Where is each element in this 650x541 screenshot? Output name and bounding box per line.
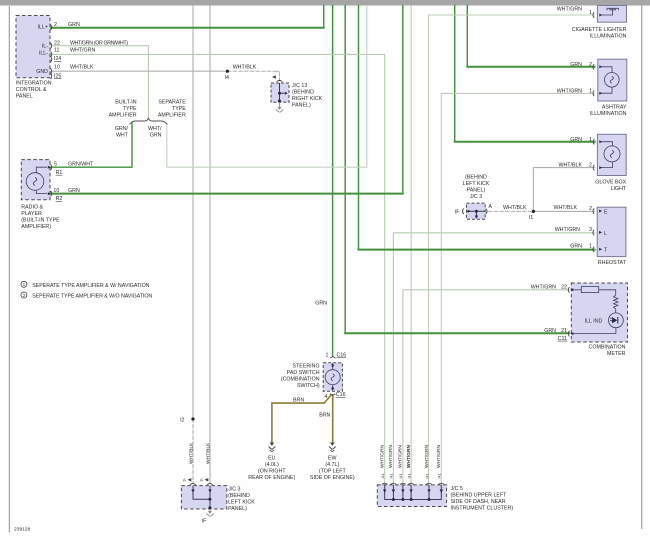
svg-text:INSTRUMENT CLUSTER): INSTRUMENT CLUSTER) — [451, 506, 514, 512]
svg-text:I41: I41 — [381, 474, 385, 479]
svg-text:(BEHIND: (BEHIND — [465, 175, 487, 181]
svg-text:METER: METER — [607, 351, 626, 357]
svg-text:5: 5 — [54, 162, 57, 168]
svg-text:WHT/BLK: WHT/BLK — [189, 442, 195, 464]
svg-text:(COMBINATION: (COMBINATION — [281, 376, 320, 382]
svg-text:REAR OF ENGINE): REAR OF ENGINE) — [248, 475, 295, 481]
svg-text:2: 2 — [589, 206, 592, 212]
svg-text:GRN: GRN — [570, 62, 582, 68]
svg-text:WHT/GRN: WHT/GRN — [70, 47, 95, 53]
svg-text:C16: C16 — [336, 392, 346, 398]
svg-text:WHT/BLK: WHT/BLK — [206, 442, 212, 464]
svg-text:ILL+: ILL+ — [38, 25, 48, 31]
svg-text:11: 11 — [54, 47, 60, 53]
svg-text:ILLUMINATION: ILLUMINATION — [590, 34, 627, 40]
svg-text:A: A — [489, 204, 493, 210]
svg-text:TYPE: TYPE — [172, 106, 186, 112]
svg-text:WHT/BLK: WHT/BLK — [70, 64, 94, 70]
svg-text:(ON RIGHT: (ON RIGHT — [258, 468, 286, 474]
svg-text:PANEL): PANEL) — [228, 506, 247, 512]
svg-text:GND: GND — [36, 69, 48, 75]
svg-text:I41: I41 — [390, 474, 394, 479]
svg-text:GRN: GRN — [68, 188, 80, 194]
svg-text:I4: I4 — [225, 75, 229, 81]
svg-text:SIDE OF ENGINE): SIDE OF ENGINE) — [310, 475, 355, 481]
svg-text:WHT/GRN: WHT/GRN — [388, 445, 394, 468]
svg-text:WHT/GRN: WHT/GRN — [424, 445, 430, 468]
svg-text:1: 1 — [589, 88, 592, 94]
svg-text:EW: EW — [328, 455, 337, 461]
svg-text:ASHTRAY: ASHTRAY — [602, 105, 627, 111]
svg-text:J/C 5: J/C 5 — [451, 486, 463, 492]
svg-text:(4.0L): (4.0L) — [265, 462, 279, 468]
svg-text:2: 2 — [589, 163, 592, 169]
svg-text:I41: I41 — [425, 474, 429, 479]
svg-text:21: 21 — [561, 328, 567, 334]
svg-text:COMBINATION: COMBINATION — [589, 345, 626, 351]
svg-text:RHEOSTAT: RHEOSTAT — [598, 260, 627, 266]
svg-text:22: 22 — [54, 40, 60, 46]
svg-text:10: 10 — [54, 64, 60, 70]
svg-text:GRN: GRN — [150, 133, 162, 139]
svg-text:PANEL): PANEL) — [292, 103, 311, 109]
svg-text:LEFT KICK: LEFT KICK — [228, 499, 255, 505]
svg-text:3: 3 — [589, 227, 592, 233]
svg-text:1: 1 — [589, 137, 592, 143]
svg-text:4: 4 — [324, 394, 327, 400]
svg-text:239128: 239128 — [14, 527, 31, 533]
svg-text:RIGHT KICK: RIGHT KICK — [292, 96, 323, 102]
svg-text:WHT/: WHT/ — [148, 126, 162, 132]
svg-text:I41: I41 — [438, 474, 442, 479]
svg-text:ILL IND: ILL IND — [585, 318, 603, 324]
svg-text:J/C 13: J/C 13 — [292, 83, 307, 89]
svg-text:WHT/BLK: WHT/BLK — [553, 205, 577, 211]
svg-text:WHT/GRN: WHT/GRN — [380, 445, 386, 468]
svg-text:SEPARATE: SEPARATE — [158, 99, 186, 105]
svg-text:WHT/GRN: WHT/GRN — [557, 7, 582, 13]
svg-text:RADIO &: RADIO & — [21, 205, 43, 211]
svg-text:PAD SWITCH: PAD SWITCH — [287, 370, 320, 376]
svg-text:WHT/GRN (OR GRN/WHT): WHT/GRN (OR GRN/WHT) — [70, 40, 128, 46]
svg-text:J/C 3: J/C 3 — [470, 194, 482, 200]
svg-text:I24: I24 — [54, 56, 61, 62]
svg-text:(BUILT-IN TYPE: (BUILT-IN TYPE — [21, 218, 60, 224]
svg-text:SIDE OF DASH, NEAR: SIDE OF DASH, NEAR — [451, 499, 506, 505]
svg-text:I41: I41 — [399, 474, 403, 479]
svg-text:GRN: GRN — [570, 137, 582, 143]
svg-text:AMPLIFIER: AMPLIFIER — [109, 112, 137, 118]
svg-text:10: 10 — [53, 188, 59, 194]
svg-text:1: 1 — [589, 10, 592, 16]
svg-text:WHT/GRN: WHT/GRN — [531, 284, 556, 290]
svg-text:PANEL): PANEL) — [467, 188, 486, 194]
svg-text:22: 22 — [561, 284, 567, 290]
svg-text:INTEGRATION: INTEGRATION — [16, 80, 52, 86]
svg-text:GRN: GRN — [570, 244, 582, 250]
svg-text:1: 1 — [326, 352, 329, 358]
svg-text:2: 2 — [589, 62, 592, 68]
svg-text:STEERING: STEERING — [293, 363, 320, 369]
svg-text:(TOP LEFT: (TOP LEFT — [319, 468, 347, 474]
svg-text:CIGARETTE LIGHTER: CIGARETTE LIGHTER — [572, 27, 627, 33]
svg-text:PANEL: PANEL — [16, 93, 33, 99]
svg-text:2: 2 — [54, 22, 57, 28]
svg-text:GRN: GRN — [315, 301, 327, 307]
svg-text:WHT/GRN: WHT/GRN — [555, 227, 580, 233]
svg-text:E: E — [604, 209, 608, 215]
svg-text:AMPLIFIER): AMPLIFIER) — [21, 224, 51, 230]
svg-text:BRN: BRN — [319, 413, 330, 419]
svg-text:(BEHIND UPPER LEFT: (BEHIND UPPER LEFT — [451, 493, 508, 499]
svg-text:J/C 3: J/C 3 — [228, 486, 240, 492]
svg-text:LEFT KICK: LEFT KICK — [463, 181, 490, 187]
svg-text:ILLUMINATION: ILLUMINATION — [590, 111, 627, 117]
svg-text:IF: IF — [455, 209, 460, 215]
svg-text:EU: EU — [268, 455, 276, 461]
svg-text:I41: I41 — [407, 474, 411, 479]
svg-text:TYPE: TYPE — [123, 106, 137, 112]
svg-text:C11: C11 — [558, 336, 567, 342]
svg-text:ILL-: ILL- — [39, 51, 48, 57]
svg-text:GRN: GRN — [544, 328, 556, 334]
svg-text:GRN/: GRN/ — [115, 126, 129, 132]
svg-text:CONTROL &: CONTROL & — [16, 87, 47, 93]
svg-text:WHT/BLK: WHT/BLK — [558, 163, 582, 169]
svg-text:WHT: WHT — [116, 133, 129, 139]
svg-text:WHT/GRN: WHT/GRN — [557, 88, 582, 94]
svg-text:WHT/GRN: WHT/GRN — [398, 445, 404, 468]
svg-text:BUILT-IN: BUILT-IN — [115, 99, 137, 105]
svg-text:IF: IF — [202, 519, 207, 525]
svg-text:SEPERATE TYPE AMPLIFIER & W/O: SEPERATE TYPE AMPLIFIER & W/O NAVIGATION — [32, 294, 152, 300]
svg-text:PLAYER: PLAYER — [21, 211, 42, 217]
svg-text:WHT/GRN: WHT/GRN — [436, 445, 442, 468]
svg-text:BRN: BRN — [293, 397, 304, 403]
svg-text:C16: C16 — [337, 352, 347, 358]
svg-text:1: 1 — [589, 244, 592, 250]
svg-text:I25: I25 — [54, 73, 61, 79]
svg-text:SEPERATE TYPE AMPLIFIER & W/ N: SEPERATE TYPE AMPLIFIER & W/ NAVIGATION — [32, 283, 149, 289]
svg-text:GLOVE BOX: GLOVE BOX — [595, 180, 626, 186]
svg-text:(BEHIND: (BEHIND — [292, 90, 314, 96]
svg-text:I2: I2 — [180, 417, 184, 423]
svg-text:I1: I1 — [529, 215, 533, 221]
svg-text:R2: R2 — [56, 196, 63, 202]
svg-text:AMPLIFIER: AMPLIFIER — [158, 112, 186, 118]
svg-text:(4.7L): (4.7L) — [325, 462, 339, 468]
svg-text:(BEHIND: (BEHIND — [228, 493, 250, 499]
svg-text:L: L — [604, 231, 607, 237]
svg-text:SWITCH): SWITCH) — [297, 383, 320, 389]
svg-text:GRN: GRN — [68, 22, 80, 28]
svg-text:LIGHT: LIGHT — [611, 186, 627, 192]
svg-text:GRN/WHT: GRN/WHT — [68, 162, 94, 168]
svg-text:WHT/GRN: WHT/GRN — [406, 445, 412, 468]
svg-text:WHT/BLK: WHT/BLK — [503, 205, 527, 211]
svg-text:R1: R1 — [56, 170, 63, 176]
svg-text:WHT/BLK: WHT/BLK — [233, 65, 257, 71]
svg-text:IL-: IL- — [42, 43, 48, 49]
